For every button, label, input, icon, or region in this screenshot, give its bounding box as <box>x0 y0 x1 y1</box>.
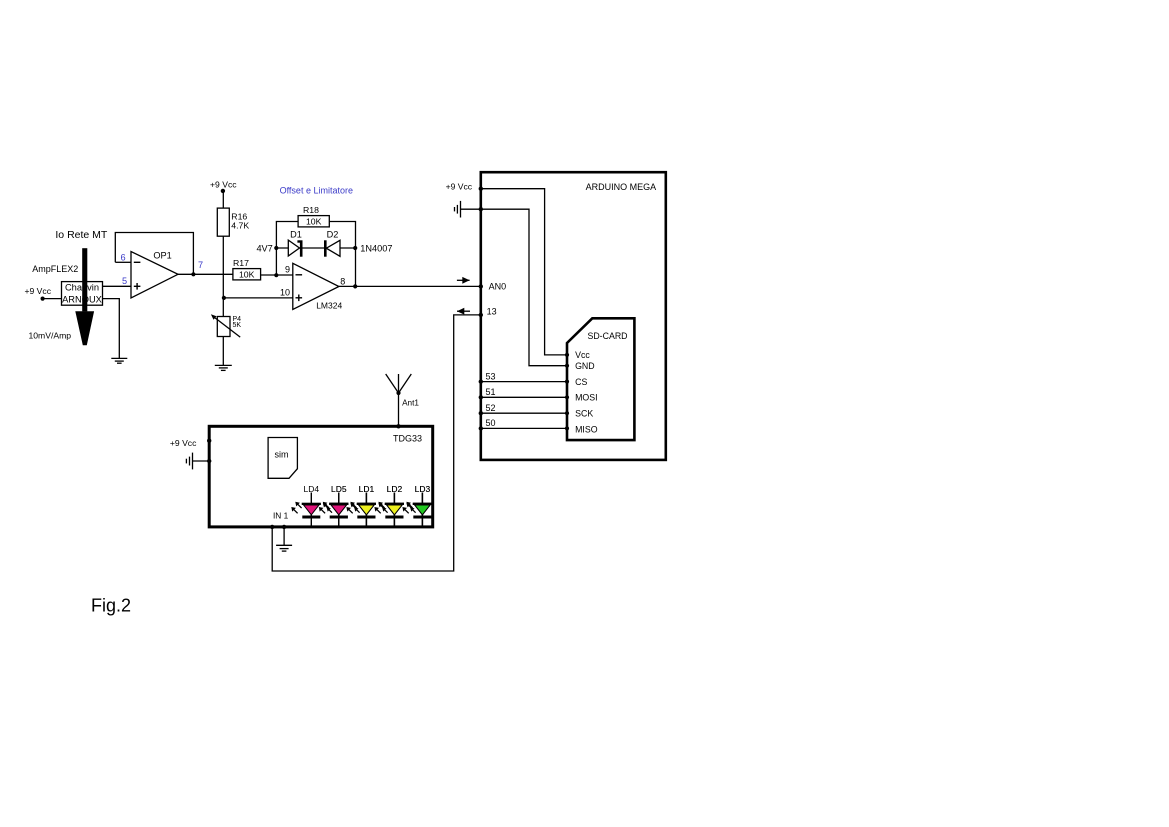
svg-text:SCK: SCK <box>575 409 593 419</box>
svg-text:5: 5 <box>122 276 127 286</box>
svg-text:7: 7 <box>198 260 203 270</box>
svg-text:9: 9 <box>285 264 290 274</box>
svg-text:50: 50 <box>486 418 496 428</box>
svg-text:MISO: MISO <box>575 424 598 434</box>
svg-text:sim: sim <box>275 450 289 460</box>
svg-text:1N4007: 1N4007 <box>360 243 392 253</box>
svg-text:R17: R17 <box>233 258 249 268</box>
svg-text:D1: D1 <box>290 229 302 239</box>
svg-text:13: 13 <box>487 307 497 317</box>
svg-text:OP1: OP1 <box>153 251 171 261</box>
svg-text:51: 51 <box>486 387 496 397</box>
svg-text:TDG33: TDG33 <box>393 434 422 444</box>
svg-text:D2: D2 <box>327 229 339 239</box>
svg-text:LD4: LD4 <box>304 484 320 494</box>
svg-text:+9 Vcc: +9 Vcc <box>210 180 237 190</box>
svg-text:53: 53 <box>486 371 496 381</box>
svg-text:LD5: LD5 <box>331 484 347 494</box>
svg-text:GND: GND <box>575 361 595 371</box>
svg-text:CS: CS <box>575 377 587 387</box>
svg-text:ARDUINO MEGA: ARDUINO MEGA <box>586 182 657 192</box>
svg-text:Fig.2: Fig.2 <box>91 596 131 616</box>
svg-text:SD-CARD: SD-CARD <box>587 331 627 341</box>
svg-text:AN0: AN0 <box>489 281 507 291</box>
svg-text:R18: R18 <box>303 205 319 215</box>
svg-text:ARNOUX: ARNOUX <box>62 295 102 305</box>
svg-text:4.7K: 4.7K <box>231 220 249 230</box>
svg-text:4V7: 4V7 <box>256 243 272 253</box>
svg-text:Ant1: Ant1 <box>402 399 419 408</box>
svg-text:10mV/Amp: 10mV/Amp <box>29 331 72 341</box>
svg-text:LD1: LD1 <box>359 484 375 494</box>
svg-text:6: 6 <box>120 252 125 262</box>
svg-text:Offset e Limitatore: Offset e Limitatore <box>280 186 353 196</box>
svg-text:10K: 10K <box>306 217 322 227</box>
svg-text:10: 10 <box>280 288 290 298</box>
svg-text:AmpFLEX2: AmpFLEX2 <box>32 264 78 274</box>
svg-text:LM324: LM324 <box>316 301 342 311</box>
svg-text:MOSI: MOSI <box>575 393 597 403</box>
svg-text:Vcc: Vcc <box>575 350 590 360</box>
svg-text:IN 1: IN 1 <box>273 511 289 521</box>
svg-text:+9 Vcc: +9 Vcc <box>25 286 52 296</box>
svg-text:Io Rete MT: Io Rete MT <box>55 229 108 241</box>
svg-text:LD2: LD2 <box>387 484 403 494</box>
svg-text:52: 52 <box>486 403 496 413</box>
svg-text:Chauvin: Chauvin <box>65 282 99 292</box>
svg-text:+9 Vcc: +9 Vcc <box>446 181 473 191</box>
svg-text:LD3: LD3 <box>415 484 431 494</box>
svg-text:+9 Vcc: +9 Vcc <box>170 438 197 448</box>
svg-text:8: 8 <box>340 277 345 287</box>
svg-text:5K: 5K <box>233 322 242 329</box>
svg-text:10K: 10K <box>239 270 255 280</box>
